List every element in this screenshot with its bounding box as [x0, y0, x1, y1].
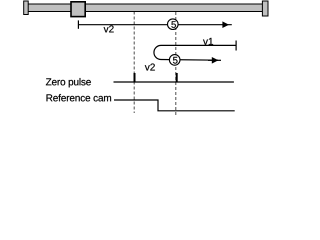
zero pulse tick 2: [176, 73, 178, 82]
dashed vline at reference cam edge: [133, 12, 135, 114]
end tick of v1 line: [235, 41, 237, 51]
start tick of phase-1 arrow: [77, 20, 79, 28]
rail (axis bar): [28, 4, 263, 12]
v1 approach line with u-turn loop into v2 return line: [154, 45, 236, 60]
label Zero pulse: [46, 78, 91, 87]
v2 return arrowhead: [212, 57, 219, 64]
zero pulse tick 1: [134, 73, 136, 82]
cam block on rail: [71, 2, 85, 17]
reference cam trace: high then drop to low: [114, 100, 235, 111]
left end stop: [24, 1, 29, 15]
circled 5 (return phase): [169, 55, 180, 66]
dashed vline at zero pulse / home position: [175, 12, 177, 116]
label Reference cam: [47, 94, 112, 101]
zero pulse baseline: [114, 81, 234, 83]
phase-1 arrowhead: [222, 21, 229, 28]
label v1: [203, 38, 213, 45]
label v2 (phase 1): [104, 25, 114, 32]
v2 return arrow tail: [208, 59, 221, 61]
circled 5 (phase 1): [168, 19, 179, 30]
right end stop: [262, 1, 268, 16]
label v2 (return phase): [145, 64, 155, 71]
phase-1 motion line: [78, 24, 231, 26]
